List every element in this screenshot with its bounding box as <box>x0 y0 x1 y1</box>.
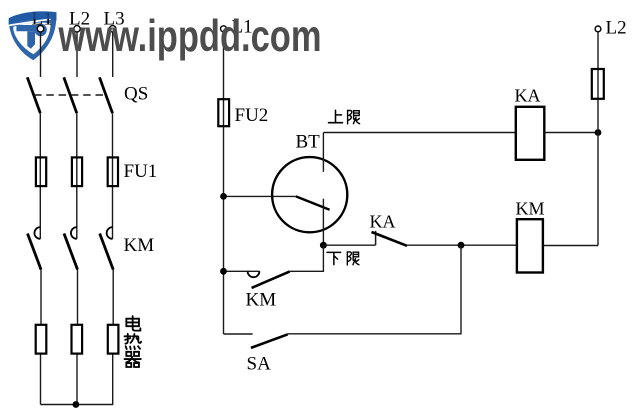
wire control left rail <box>223 32 225 334</box>
svg-text:BT: BT <box>296 132 321 153</box>
label xiaxian (lower limit) char xia <box>327 252 341 264</box>
fuse FU1 pole 3 <box>108 157 118 186</box>
label dianreqi (electric heater) char dian <box>126 316 140 331</box>
svg-text:QS: QS <box>124 84 148 105</box>
svg-text:FU1: FU1 <box>124 161 158 182</box>
svg-text:FU2: FU2 <box>235 105 269 126</box>
label shangxian (upper limit) char shang <box>329 110 343 122</box>
svg-text:SA: SA <box>247 354 272 375</box>
terminal L3 <box>110 26 116 32</box>
svg-text:L2: L2 <box>606 18 627 39</box>
thermometer BT bottom electrode <box>322 199 324 246</box>
wire KA coil to L2 rail <box>544 132 598 134</box>
QS linkage dashed line <box>34 94 105 96</box>
contactor KM main contact 3 blade <box>100 234 114 270</box>
wire KA row left <box>323 244 375 246</box>
junction dot E <box>595 129 602 136</box>
wire phase3 vertical <box>112 32 115 405</box>
terminal L1 control <box>221 26 227 32</box>
junction dot D <box>220 268 227 275</box>
wire BT feed horizontal <box>224 195 296 197</box>
wire phase2 vertical <box>76 32 79 405</box>
heater element 3 <box>108 325 119 354</box>
heater element 1 <box>36 325 47 354</box>
contactor KM main contact 2 arc <box>71 227 77 239</box>
terminal L2 <box>74 26 80 32</box>
wire SA row left <box>224 333 253 335</box>
thermometer BT contact diagonal <box>296 196 330 209</box>
watermark logo shield <box>8 11 57 60</box>
fuse FU3 (L2 rail) <box>592 69 604 99</box>
thermometer BT circle <box>272 157 347 232</box>
contactor KM main contact 2 blade <box>64 234 78 270</box>
terminal L2 control <box>595 26 601 32</box>
wire KA row right <box>407 244 517 246</box>
junction star point <box>73 401 80 408</box>
contactor KM aux contact blade <box>252 271 290 288</box>
svg-text:KA: KA <box>515 86 541 106</box>
wire upper-limit to KA coil <box>323 132 516 134</box>
terminal L1 <box>37 26 43 32</box>
heater element 2 <box>72 325 83 354</box>
label dianreqi char qi <box>124 352 140 367</box>
contactor KM main contact 1 arc <box>34 227 40 239</box>
fuse FU1 pole 2 <box>72 157 82 186</box>
wire SA row right with riser <box>288 245 461 334</box>
junction dot C <box>458 242 465 249</box>
svg-text:KM: KM <box>124 235 155 256</box>
wire KM aux row left <box>224 270 260 272</box>
watermark band overlay <box>8 11 56 25</box>
wire L2 rail <box>597 32 599 246</box>
wire KM coil right to L2 rail <box>543 245 598 247</box>
switch QS pole 2 blade <box>64 77 77 113</box>
switch QS pole 1 blade <box>27 77 40 113</box>
junction dot B (BT bottom) <box>320 242 327 249</box>
relay coil KA <box>516 107 545 160</box>
contactor KM main contact 3 arc <box>107 227 113 239</box>
wire KM aux row right with riser <box>290 245 324 271</box>
label xiaxian char xian <box>347 252 359 265</box>
svg-text:KA: KA <box>370 211 396 231</box>
fuse FU1 pole 1 <box>36 157 46 186</box>
relay contact KA stub <box>375 231 377 245</box>
label shangxian char xian <box>348 110 360 124</box>
thermometer BT top electrode <box>322 133 324 172</box>
switch SA blade <box>251 334 288 348</box>
label dianreqi char re <box>124 334 141 349</box>
switch QS pole 3 blade <box>100 77 113 113</box>
svg-text:www.ippdd.com: www.ippdd.com <box>58 12 322 61</box>
contactor coil KM <box>517 219 543 272</box>
wire phase1 vertical <box>39 32 42 405</box>
contactor KM main contact 1 blade <box>28 234 42 270</box>
svg-text:KM: KM <box>246 289 277 310</box>
svg-text:KM: KM <box>516 198 545 218</box>
bottom star bus wire <box>41 404 114 406</box>
relay contact KA blade <box>372 232 408 246</box>
contactor KM aux contact arc <box>248 271 260 277</box>
junction dot A <box>220 193 227 200</box>
fuse FU2 <box>218 99 229 126</box>
